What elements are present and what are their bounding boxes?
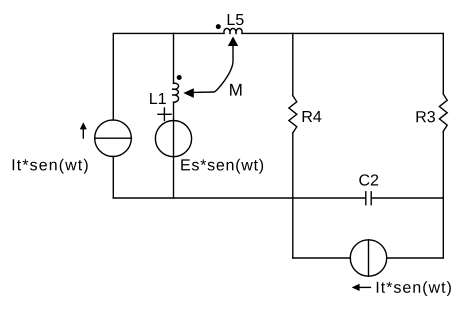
resistor R4 (289, 96, 297, 133)
wire top right (242, 33, 443, 94)
dot L1 polarity (177, 75, 182, 80)
plus sign Es (158, 113, 171, 115)
label M (230, 84, 241, 96)
label Es*sen(wt) (181, 159, 263, 174)
label It*sen(wt) left (13, 159, 88, 174)
arrow It bottom (359, 286, 370, 288)
capacitor C2 (365, 192, 367, 205)
wire bottom loop left (293, 257, 351, 259)
wire left vertical lower (112, 157, 114, 199)
mutual coupling M arrow (194, 46, 233, 92)
wire C2 right (371, 197, 443, 199)
arrow It left (82, 129, 84, 138)
wire R4 branch bottom (292, 133, 294, 258)
current source It left (95, 120, 132, 157)
label C2 (359, 174, 378, 185)
voltage source Es (155, 121, 191, 157)
label R3 (417, 111, 435, 122)
wire R4 branch top (292, 33, 294, 95)
wire branch upper (173, 33, 175, 83)
inductor L1 (172, 83, 179, 102)
wire top left (113, 33, 224, 120)
resistor R3 (439, 94, 447, 131)
label It*sen(wt) bottom (377, 281, 451, 296)
current source It bottom (350, 240, 386, 276)
inductor L5 (224, 28, 242, 34)
wire right vertical lower (442, 131, 444, 258)
wire bottom loop right (387, 257, 444, 259)
wire branch through Es (173, 102, 175, 198)
label L5 (228, 14, 244, 25)
label L1 (150, 93, 166, 104)
label R4 (303, 111, 322, 122)
wire bottom horizontal (113, 197, 365, 199)
dot L5 polarity (216, 24, 221, 29)
